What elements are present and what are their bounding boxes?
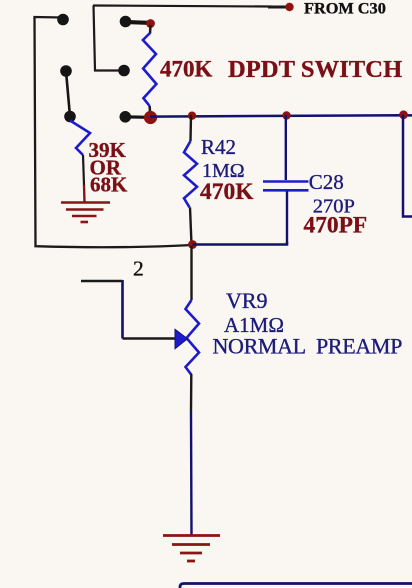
resistor 470K (switch) — [149, 25, 152, 34]
node main junction — [144, 111, 157, 124]
switch DPDT contact R3 — [120, 111, 132, 123]
svg-text:FROM C30: FROM C30 — [304, 0, 386, 18]
wire thick stub at FROM C30 node — [268, 6, 286, 9]
svg-text:VR9: VR9 — [226, 288, 268, 313]
switch DPDT contact L1 — [57, 14, 69, 26]
ground G1 — [61, 203, 110, 223]
wire wiper to arrow — [123, 337, 177, 340]
svg-text:R42: R42 — [201, 135, 236, 159]
wire VR9 bottom to ground — [190, 374, 193, 412]
svg-text:2: 2 — [133, 257, 144, 281]
wiper arrow head — [175, 329, 188, 348]
wire C28 bottom lead — [286, 191, 288, 245]
wire R42 top stub — [189, 115, 192, 141]
wire left frame from switch L1 down and right to bottom rail — [35, 17, 193, 247]
svg-text:NORMAL PREAMP: NORMAL PREAMP — [213, 334, 403, 359]
wire wiper vertical — [121, 280, 124, 339]
node 470K top — [146, 19, 155, 28]
switch DPDT contact R1 — [120, 16, 132, 28]
svg-text:DPDT SWITCH: DPDT SWITCH — [228, 56, 402, 83]
svg-text:470K: 470K — [160, 57, 213, 82]
node bottom rail junction — [188, 240, 197, 249]
wire 39K to ground stem — [83, 155, 84, 185]
potentiometer VR9 — [186, 300, 200, 375]
node right rail corner — [399, 110, 408, 119]
switch DPDT contact L2 — [60, 65, 72, 77]
resistor R42 — [184, 141, 197, 207]
wire main horizontal rail — [150, 115, 412, 116]
wire R1 to 470K top node — [126, 20, 149, 25]
svg-text:C28: C28 — [309, 170, 344, 194]
switch DPDT contact L3 — [64, 111, 76, 123]
wire wiper horizontal from pin 2 — [81, 280, 123, 283]
wire bottom rail navy segment — [193, 242, 288, 245]
wire second frame from top rail down to switch R2 — [94, 6, 123, 71]
capacitor C28 plates — [263, 182, 309, 191]
switch DPDT contact R2 — [118, 65, 130, 77]
node C28 top — [282, 111, 290, 119]
svg-text:470K: 470K — [200, 179, 254, 205]
box bottom component outline — [180, 584, 412, 588]
switch lever L2-L3 — [66, 71, 70, 117]
wire R3 to junction node — [125, 115, 148, 119]
svg-text:68K: 68K — [90, 172, 128, 196]
node R42 top — [188, 112, 196, 120]
wire top rail to FROM C30 — [93, 6, 286, 8]
wire C28 top lead — [285, 115, 287, 180]
wire R42 bottom stub — [190, 207, 192, 244]
node FROM C30 — [285, 3, 293, 11]
wire right drop and exit — [403, 115, 412, 217]
resistor 39K/68K zigzag from L3 — [70, 121, 90, 156]
wire VR9 top stub — [190, 246, 192, 300]
ground G2 — [163, 536, 220, 562]
svg-text:470PF: 470PF — [304, 212, 368, 238]
